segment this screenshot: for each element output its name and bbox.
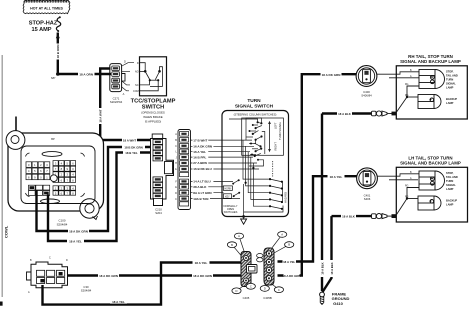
svg-text:G: G xyxy=(175,168,177,171)
svg-text:17 B WHT: 17 B WHT xyxy=(193,138,207,142)
svg-text:D: D xyxy=(236,289,238,293)
svg-text:S87: S87 xyxy=(51,76,56,80)
svg-text:B: B xyxy=(231,243,233,247)
wires C401 to LH lamp pins xyxy=(377,174,419,180)
svg-text:18 A WHT: 18 A WHT xyxy=(99,109,103,123)
svg-text:BACKUP: BACKUP xyxy=(446,97,457,101)
ground arrow under turn signal switch xyxy=(241,215,247,224)
svg-text:STOP-HAZ: STOP-HAZ xyxy=(29,20,58,26)
wire 18 A YEL / 18 B YEL C100 to column xyxy=(48,151,150,244)
turn direction arrow xyxy=(268,121,271,152)
svg-text:S204: S204 xyxy=(155,211,162,215)
connector C271 xyxy=(110,59,126,104)
svg-text:H: H xyxy=(175,162,177,165)
svg-text:18 A BLK: 18 A BLK xyxy=(338,112,352,116)
svg-text:SIGNAL AND BACKUP LAMP: SIGNAL AND BACKUP LAMP xyxy=(400,161,461,166)
svg-text:TURN: TURN xyxy=(446,78,453,82)
RH stop/tail/turn bulb xyxy=(419,70,444,89)
battery feed box HOT AT ALL TIMES xyxy=(23,0,70,14)
svg-text:HOT AT ALL TIMES: HOT AT ALL TIMES xyxy=(30,6,63,10)
svg-text:IS APPLIED): IS APPLIED) xyxy=(145,119,162,123)
svg-text:BP: BP xyxy=(51,137,55,141)
LH ground riser to frame ground xyxy=(323,216,334,292)
bulkhead connector C100 xyxy=(4,117,104,239)
RH ground wire 18 A BLK + inline connector xyxy=(322,111,392,116)
wire 18 A DK GRN C30 to C405 xyxy=(68,273,241,278)
svg-text:G410: G410 xyxy=(333,301,344,306)
wire 18 A DK GRN C405 to RH lamp xyxy=(278,72,357,278)
svg-text:SIGNAL: SIGNAL xyxy=(446,183,456,187)
svg-text:TURN SIGNAL: TURN SIGNAL xyxy=(278,121,282,140)
RH tail/stop/turn & backup lamp assembly xyxy=(392,54,468,119)
column connector C210 xyxy=(151,134,174,215)
page scan border left xyxy=(0,55,3,306)
svg-text:D: D xyxy=(175,192,177,195)
svg-text:C: C xyxy=(49,257,51,260)
svg-text:HAZARD: HAZARD xyxy=(284,192,288,203)
svg-text:C: C xyxy=(278,288,280,292)
hazard switch contacts xyxy=(270,161,282,209)
svg-text:NC: NC xyxy=(135,84,139,87)
svg-text:16 B PPL: 16 B PPL xyxy=(193,155,206,159)
svg-text:TURN: TURN xyxy=(446,179,453,183)
horn / key switch boxes xyxy=(223,179,240,214)
svg-text:SIGNAL SWITCH: SIGNAL SWITCH xyxy=(235,104,274,110)
svg-text:RG: RG xyxy=(405,186,409,188)
svg-text:(STEERING COLUMN SWITCHES): (STEERING COLUMN SWITCHES) xyxy=(234,112,277,116)
svg-text:S202/P94: S202/P94 xyxy=(110,100,123,104)
splice S87 xyxy=(51,72,60,80)
fuse STOP-HAZ 15 AMP xyxy=(29,16,61,33)
LH stop/tail/turn bulb xyxy=(419,171,445,190)
svg-text:C405: C405 xyxy=(243,296,250,300)
svg-text:S406: S406 xyxy=(364,197,371,201)
svg-text:B: B xyxy=(288,243,290,247)
RH ground wiring inside box xyxy=(396,86,420,114)
svg-text:LEFT: LEFT xyxy=(274,122,278,129)
svg-text:(OPENS/CLOSES: (OPENS/CLOSES xyxy=(141,110,165,114)
svg-text:18 A YEL: 18 A YEL xyxy=(283,260,295,264)
connector C401 (round) xyxy=(357,168,378,201)
svg-text:18 A BLK: 18 A BLK xyxy=(330,262,334,274)
svg-text:18 A DK GRN: 18 A DK GRN xyxy=(322,73,341,77)
svg-text:LAMP: LAMP xyxy=(446,86,454,90)
svg-text:18 A YEL: 18 A YEL xyxy=(330,175,343,179)
pin callout ovals C405 xyxy=(227,232,293,300)
svg-text:18 B ORN: 18 B ORN xyxy=(56,45,60,59)
wires column strip to turn signal switch xyxy=(191,140,260,199)
wires C271 to TCC switch pins xyxy=(122,63,134,91)
svg-text:18 B DK GRN: 18 B DK GRN xyxy=(124,146,142,150)
svg-text:D: D xyxy=(137,62,139,65)
wires C400 to RH lamp pins xyxy=(377,72,419,78)
wire 18 A WHT C271 to column connector xyxy=(98,69,150,143)
wire 18 A DK GRN / 18 B DK GRN C100 to column xyxy=(37,145,151,234)
svg-text:S406/84: S406/84 xyxy=(361,94,372,98)
svg-text:18 A BLK: 18 A BLK xyxy=(342,215,356,219)
svg-text:A: A xyxy=(238,234,240,238)
svg-text:19A B TAN: 19A B TAN xyxy=(193,197,208,201)
svg-text:14 A LT BLU: 14 A LT BLU xyxy=(193,180,210,184)
svg-text:18 A YEL: 18 A YEL xyxy=(69,240,82,244)
svg-text:BACKUP: BACKUP xyxy=(446,199,457,203)
frame ground G410 xyxy=(320,292,350,306)
svg-text:18 A DK GRN: 18 A DK GRN xyxy=(193,274,212,278)
LH ground wire 18 A BLK + inline connector xyxy=(332,214,392,219)
svg-text:16 B DK BLU: 16 B DK BLU xyxy=(193,167,212,171)
LH backup bulb xyxy=(418,196,441,210)
svg-text:S204/84: S204/84 xyxy=(57,222,68,226)
svg-text:16 A DK GRN: 16 A DK GRN xyxy=(193,145,212,149)
svg-text:D: D xyxy=(66,259,68,262)
svg-text:TAIL AND: TAIL AND xyxy=(446,74,458,78)
svg-text:D: D xyxy=(264,287,266,291)
svg-text:18 A BLK: 18 A BLK xyxy=(320,262,324,274)
svg-text:A: A xyxy=(123,92,125,96)
RH ground riser to frame ground xyxy=(320,114,325,292)
switch inner sub-box xyxy=(242,118,284,155)
svg-text:TURN: TURN xyxy=(247,98,261,104)
svg-text:RG: RG xyxy=(405,95,409,97)
wire fuse to splice, 18 B ORN xyxy=(56,33,61,75)
svg-text:LAMP: LAMP xyxy=(446,203,454,207)
svg-text:HORN: HORN xyxy=(225,188,232,190)
svg-text:SWITCH: SWITCH xyxy=(142,104,164,110)
svg-text:27 A BRN: 27 A BRN xyxy=(193,161,206,165)
svg-text:18 A WHT: 18 A WHT xyxy=(123,138,137,142)
svg-text:16 A YEL: 16 A YEL xyxy=(193,150,206,154)
svg-text:C405B: C405B xyxy=(263,296,272,300)
wire 18 A YEL C405 to LH lamp xyxy=(278,174,357,264)
svg-text:RIGHT: RIGHT xyxy=(274,142,278,151)
wire 18 A YEL C30 to C405 xyxy=(43,260,241,304)
svg-text:RG: RG xyxy=(405,84,409,86)
interior vertical links xyxy=(243,140,283,216)
svg-text:A: A xyxy=(281,233,283,237)
svg-text:C: C xyxy=(250,284,252,288)
svg-text:COM: COM xyxy=(133,90,139,93)
svg-text:STOP,: STOP, xyxy=(446,70,454,74)
svg-text:C: C xyxy=(175,145,177,148)
svg-text:18 A DK GRN: 18 A DK GRN xyxy=(282,274,300,278)
svg-text:18 A ORN: 18 A ORN xyxy=(79,72,93,76)
svg-text:NO: NO xyxy=(135,71,139,74)
svg-text:18 A DK GRN: 18 A DK GRN xyxy=(69,230,88,234)
svg-text:KEY: KEY xyxy=(225,196,230,198)
LH ground wiring inside box xyxy=(396,188,420,217)
LH tail/stop/turn & backup lamp assembly xyxy=(392,156,468,223)
svg-text:18 A DK GRN: 18 A DK GRN xyxy=(99,274,118,278)
RH backup bulb xyxy=(418,95,441,109)
svg-text:SWITCHES: SWITCHES xyxy=(224,210,238,214)
svg-text:SIGNAL AND BACKUP LAMP: SIGNAL AND BACKUP LAMP xyxy=(400,59,461,64)
svg-text:C: C xyxy=(175,198,177,201)
svg-text:STOP,: STOP, xyxy=(446,171,454,175)
svg-text:COWL: COWL xyxy=(4,225,9,238)
TCC/STOPLAMP switch U1 xyxy=(131,57,176,124)
svg-text:18 B YEL: 18 B YEL xyxy=(125,151,138,155)
svg-text:WHEN BRAKE: WHEN BRAKE xyxy=(143,115,163,119)
connector C30 xyxy=(27,257,92,294)
svg-text:18 A YEL: 18 A YEL xyxy=(195,261,208,265)
svg-text:15 AMP: 15 AMP xyxy=(32,27,52,33)
svg-text:SIGNAL: SIGNAL xyxy=(446,82,456,86)
svg-text:38 A BLK: 38 A BLK xyxy=(193,185,207,189)
svg-text:TAIL AND: TAIL AND xyxy=(446,175,458,179)
svg-text:8A A LT GRN: 8A A LT GRN xyxy=(193,191,211,195)
svg-text:D: D xyxy=(124,59,126,63)
svg-text:S204/84: S204/84 xyxy=(81,288,92,292)
column pin strip connector xyxy=(175,130,191,210)
svg-text:LAMP: LAMP xyxy=(446,101,454,105)
svg-text:18 A YEL: 18 A YEL xyxy=(112,300,125,304)
switch contacts upper cluster xyxy=(229,118,265,156)
svg-text:LAMP: LAMP xyxy=(446,187,454,191)
connector pair C405 xyxy=(241,248,274,287)
svg-text:RG: RG xyxy=(405,197,409,199)
turn signal switch box xyxy=(222,98,289,224)
connector C400 (round) xyxy=(356,66,377,98)
wire 18 A ORN to C271 xyxy=(58,71,111,76)
